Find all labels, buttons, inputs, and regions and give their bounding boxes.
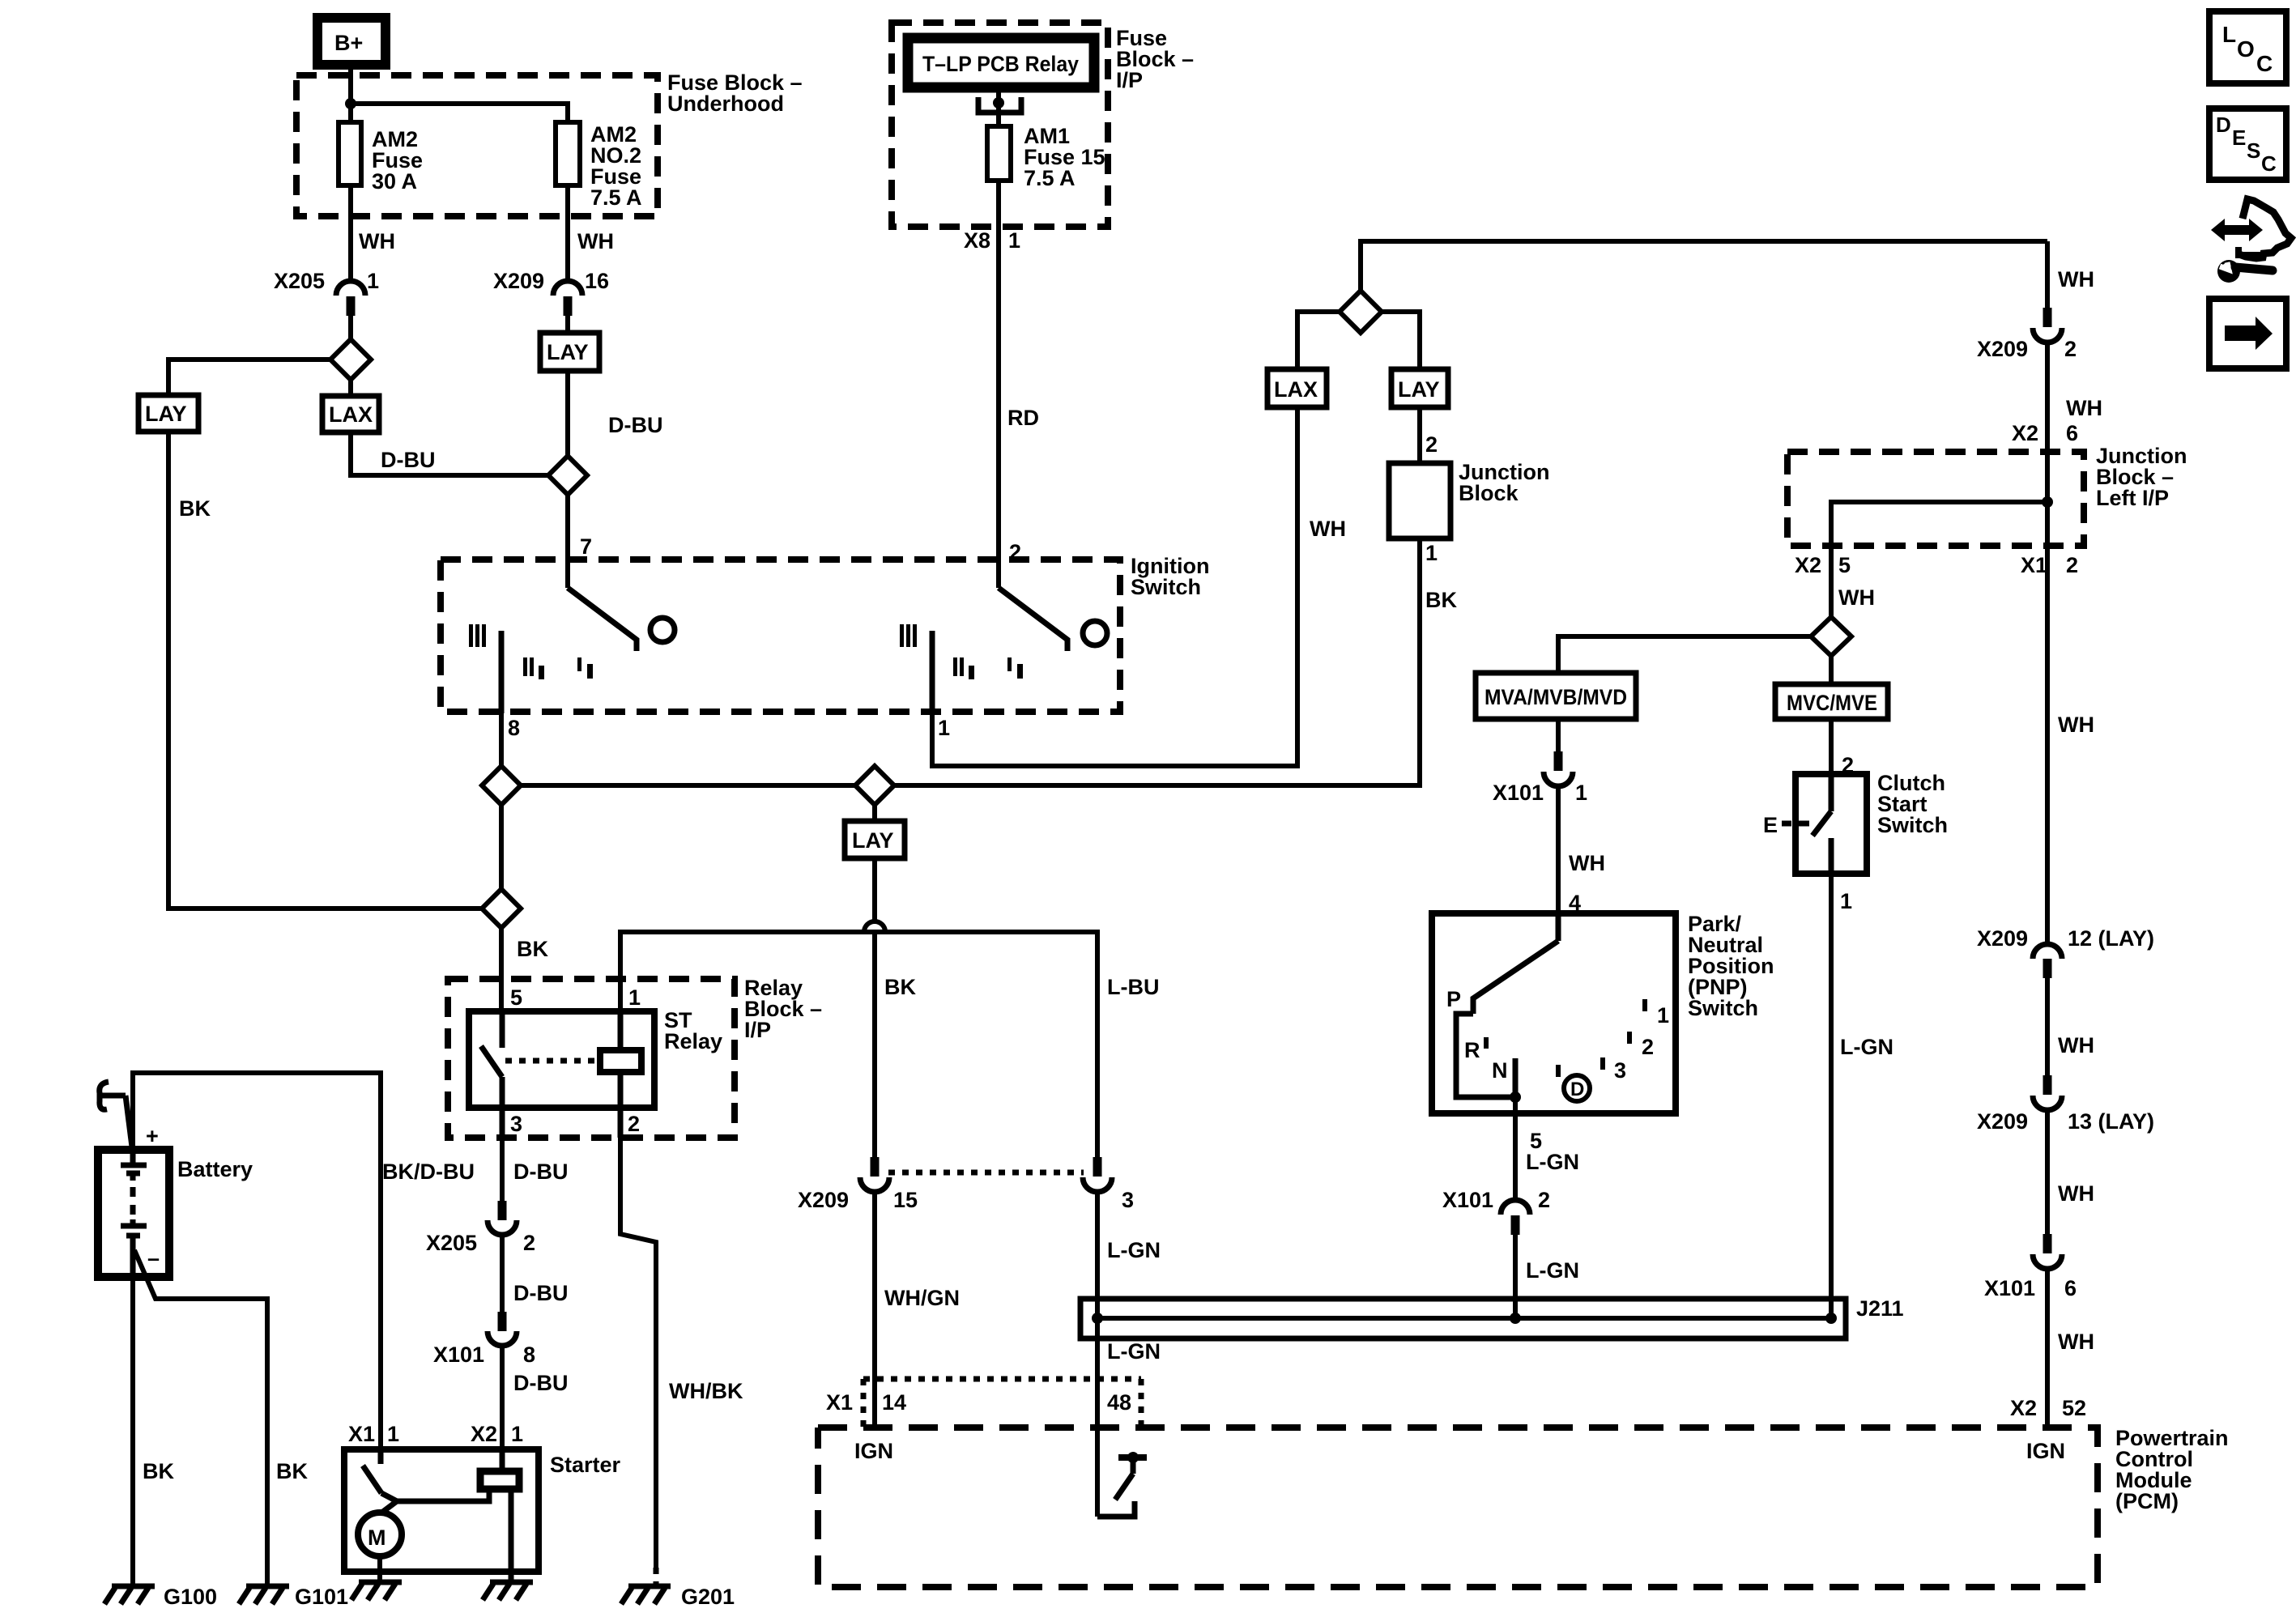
svg-text:12 (LAY): 12 (LAY)	[2068, 926, 2154, 951]
connector X209 pin 13	[2033, 1075, 2062, 1110]
wire MVC/MVE to clutch start switch	[1829, 719, 1834, 774]
fuse AM2 30A	[339, 122, 361, 185]
svg-text:3: 3	[1122, 1188, 1134, 1212]
svg-text:X101: X101	[1984, 1276, 2035, 1300]
ground under starter motor	[351, 1582, 402, 1600]
wire splice S5 down to relay block	[499, 928, 504, 1011]
wire battery positive up and over to starter X1-1	[133, 1073, 381, 1449]
starter box	[344, 1449, 539, 1572]
ground G201	[621, 1586, 671, 1604]
wire X209-2 drop	[2045, 241, 2050, 310]
svg-text:WH: WH	[359, 229, 395, 253]
svg-text:Underhood: Underhood	[667, 91, 784, 116]
svg-text:1: 1	[1840, 889, 1852, 913]
net label box MVA/MVB/MVD	[1476, 673, 1636, 719]
connector X101 pin 1	[1544, 751, 1573, 786]
svg-text:WH: WH	[1569, 851, 1605, 875]
net label box MVC/MVE	[1775, 684, 1888, 719]
svg-text:WH: WH	[2058, 267, 2094, 291]
svg-text:N: N	[1492, 1058, 1508, 1083]
wire junction strap to X2-5	[1831, 502, 2047, 546]
splice diamond S7	[1811, 617, 1851, 656]
svg-text:BK: BK	[1425, 588, 1457, 612]
svg-text:Block: Block	[1459, 481, 1519, 505]
ignition switch section B contact ring	[1083, 621, 1107, 645]
svg-text:1: 1	[628, 985, 641, 1010]
ignition switch section A contact III line	[499, 631, 505, 713]
svg-text:8: 8	[508, 716, 520, 740]
svg-text:LAY: LAY	[547, 340, 589, 364]
splice diamond S6 (on bus to mid LAY)	[855, 766, 894, 805]
label Junction Block	[1459, 460, 1550, 505]
svg-text:8: 8	[523, 1343, 535, 1367]
svg-text:D-BU: D-BU	[513, 1281, 569, 1305]
wire LAX down then right to D-BU splice	[351, 432, 547, 475]
label X209 12 (LAY)	[1977, 926, 2154, 951]
label ST Relay	[664, 1008, 722, 1053]
svg-text:C: C	[2261, 151, 2277, 176]
label X2 1 (starter)	[471, 1422, 523, 1446]
wire branch to LAX and LAY	[1297, 312, 1420, 369]
svg-text:Switch: Switch	[1131, 575, 1201, 599]
svg-text:X209: X209	[1977, 1109, 2028, 1134]
splice bar J211	[1080, 1299, 1846, 1338]
PNP switch blade from pin 4	[1473, 913, 1558, 1014]
label X1 14	[826, 1390, 906, 1415]
svg-text:C: C	[2256, 51, 2273, 76]
svg-text:X209: X209	[798, 1188, 849, 1212]
junction block left I/P dashed enclosure	[1787, 452, 2084, 546]
wire splice S3 up and across to X209-2 drop	[1361, 241, 2047, 291]
svg-text:X2: X2	[1795, 553, 1821, 577]
svg-text:D-BU: D-BU	[381, 448, 436, 472]
label R with tick	[1464, 1037, 1489, 1062]
svg-text:I/P: I/P	[744, 1018, 771, 1042]
svg-text:1: 1	[938, 716, 950, 740]
svg-text:X101: X101	[1442, 1188, 1493, 1212]
wire X205-2 to X101-8	[500, 1235, 505, 1312]
svg-text:1: 1	[367, 269, 379, 293]
svg-text:L-GN: L-GN	[1107, 1339, 1161, 1364]
connector X205 pin 1	[336, 281, 365, 316]
svg-text:X205: X205	[426, 1231, 477, 1255]
splice diamond S1	[330, 339, 371, 380]
svg-text:7.5 A: 7.5 A	[1024, 166, 1076, 190]
label X209 13 (LAY)	[1977, 1109, 2154, 1134]
PNP position 2 mark	[1627, 1032, 1654, 1059]
label X8 1	[964, 228, 1020, 253]
wire clutch switch to J211	[1829, 874, 1834, 1318]
svg-text:X1: X1	[826, 1390, 853, 1415]
svg-text:30 A: 30 A	[372, 169, 417, 194]
svg-text:WH: WH	[2058, 713, 2094, 737]
starter motor M	[358, 1513, 402, 1556]
label X1 2	[2021, 553, 2078, 577]
svg-text:X101: X101	[1493, 781, 1544, 805]
node dot J211 mid	[1510, 1313, 1521, 1324]
svg-text:G101: G101	[295, 1585, 348, 1609]
svg-text:RD: RD	[1007, 406, 1039, 430]
wire splice to left LAY branch	[168, 360, 330, 395]
starter solenoid coil	[480, 1449, 519, 1581]
label AM2 Fuse 30 A	[372, 127, 423, 194]
svg-text:X205: X205	[274, 269, 325, 293]
ST relay coil	[600, 1011, 641, 1138]
svg-text:D-BU: D-BU	[513, 1160, 569, 1184]
svg-text:MVC/MVE: MVC/MVE	[1787, 691, 1877, 715]
PNP switch N contact	[1513, 1058, 1519, 1097]
wire splice S6 down to LAY mid-low box	[872, 805, 877, 821]
net label box LAX (mid)	[1267, 369, 1327, 407]
label X1 1 (starter)	[348, 1422, 399, 1446]
svg-text:5: 5	[510, 985, 522, 1010]
svg-text:L-GN: L-GN	[1526, 1258, 1579, 1283]
wire far-left BK down and right to diamond	[168, 432, 482, 908]
wire battery negative branch to ground G101	[134, 1250, 267, 1585]
wire splice S7 to MVA/MVB/MVD	[1558, 636, 1811, 673]
svg-text:I/P: I/P	[1116, 68, 1143, 92]
svg-text:–: –	[147, 1246, 160, 1270]
connector X209 pin 15	[860, 1157, 889, 1192]
PCM internal switch to ground	[1097, 1452, 1147, 1517]
ground G100	[104, 1586, 155, 1604]
svg-text:J211: J211	[1856, 1296, 1904, 1321]
PCM dashed enclosure	[818, 1428, 2098, 1587]
svg-text:13 (LAY): 13 (LAY)	[2068, 1109, 2154, 1134]
svg-text:D: D	[2216, 113, 2231, 137]
ignition switch section A position I marks	[577, 657, 593, 679]
splice diamond S4 (below ignition pin 8)	[482, 766, 521, 805]
svg-text:LAY: LAY	[145, 402, 187, 426]
svg-text:X209: X209	[493, 269, 544, 293]
svg-text:2: 2	[2066, 553, 2078, 577]
connector X209 pin 3	[1083, 1157, 1112, 1192]
svg-text:X1: X1	[2021, 553, 2047, 577]
svg-text:LAX: LAX	[329, 402, 373, 427]
label X101 1	[1493, 781, 1587, 805]
clutch start switch box	[1795, 774, 1867, 874]
svg-text:3: 3	[510, 1112, 522, 1136]
connector X101 pin 8	[488, 1312, 517, 1346]
svg-text:2: 2	[1538, 1188, 1550, 1212]
wire X2-5 to splice diamond S7	[1829, 546, 1834, 617]
starter contact stub from X1-1	[378, 1449, 384, 1464]
icon wrench	[2217, 260, 2273, 283]
node dot at N contact	[1510, 1091, 1521, 1103]
wire LAY right-branch down to D-BU splice	[565, 371, 570, 456]
svg-text:X8: X8	[964, 228, 990, 253]
net label box LAY (mid low)	[845, 821, 905, 858]
junction block (small)	[1389, 463, 1450, 538]
wire LAY mid down to junction block	[1417, 407, 1422, 463]
wire X209-3 down through J211 to PCM 48	[1095, 1190, 1100, 1517]
label AM1 Fuse 15 7.5 A	[1024, 124, 1105, 190]
svg-text:WH: WH	[2058, 1330, 2094, 1354]
svg-text:BK: BK	[276, 1459, 308, 1483]
svg-text:IGN: IGN	[854, 1439, 893, 1463]
wire MVA box to connector X101-1	[1556, 719, 1561, 754]
svg-text:T–LP PCB Relay: T–LP PCB Relay	[922, 52, 1079, 76]
relay T-LP PCB Relay	[908, 38, 1094, 87]
wire splice down to LAX box	[348, 380, 353, 396]
svg-text:5: 5	[1838, 553, 1851, 577]
wire X101-6 to PCM X2-52	[2045, 1267, 2050, 1428]
ignition switch section B position I marks	[1007, 657, 1023, 679]
svg-text:6: 6	[2066, 421, 2078, 445]
svg-text:2: 2	[1009, 540, 1021, 564]
starter switch blade	[363, 1466, 381, 1493]
ignition switch section B position II marks	[953, 657, 974, 679]
icon service hood with arrow	[2211, 199, 2291, 258]
svg-text:1: 1	[511, 1422, 523, 1446]
svg-text:L: L	[2222, 22, 2236, 47]
svg-text:O: O	[2237, 36, 2255, 62]
svg-text:L-BU: L-BU	[1107, 975, 1159, 999]
label X209 2	[1977, 337, 2077, 361]
label X101 6	[1984, 1276, 2077, 1300]
svg-text:X2: X2	[471, 1422, 497, 1446]
connector X209 pin 12	[2033, 944, 2062, 978]
label Fuse Block - I/P	[1116, 26, 1194, 92]
starter motor link wire	[381, 1489, 489, 1501]
svg-text:D: D	[1570, 1079, 1584, 1100]
svg-text:1: 1	[1575, 781, 1587, 805]
svg-text:D-BU: D-BU	[513, 1371, 569, 1395]
svg-text:BK: BK	[143, 1459, 174, 1483]
wire ST relay pin1 riser and L-BU drop	[620, 932, 1097, 1160]
wire feed to AM2 NO.2 fuse	[351, 104, 568, 122]
svg-text:L-GN: L-GN	[1107, 1238, 1161, 1262]
svg-text:1: 1	[1425, 541, 1438, 565]
wire AM2 fuse to connector X205	[348, 185, 353, 283]
node dot J211 right	[1825, 1313, 1837, 1324]
node B+ battery feed terminal	[317, 18, 386, 65]
svg-text:Switch: Switch	[1688, 996, 1758, 1020]
splice diamond S5 (BK to relay)	[482, 889, 521, 928]
battery positive cable hook terminal	[100, 1082, 134, 1166]
svg-text:X209: X209	[1977, 337, 2028, 361]
label Powertrain Control Module (PCM)	[2115, 1426, 2229, 1513]
wire junction block pin1 down and left along bus	[521, 538, 1420, 785]
node dot J211 left	[1092, 1313, 1103, 1324]
svg-text:BK: BK	[517, 937, 548, 961]
label X205 1	[274, 269, 379, 293]
wire below hop to connector X209-15	[872, 932, 877, 1160]
svg-text:7.5 A: 7.5 A	[590, 185, 642, 210]
wire X209-13 to X101-6	[2045, 1108, 2050, 1236]
splice diamond S7b to MVC/MVE	[1829, 656, 1834, 684]
svg-text:Left I/P: Left I/P	[2096, 486, 2169, 510]
label Park/Neutral Position (PNP) Switch	[1688, 912, 1774, 1020]
svg-text:R: R	[1464, 1038, 1480, 1062]
ST relay actuator dashed link	[505, 1058, 600, 1064]
node junction dot inside block	[2042, 496, 2053, 508]
fuse block I/P dashed enclosure	[892, 23, 1108, 227]
wire relay to AM1 fuse	[996, 87, 1001, 126]
wire ignition pin 8 to splice S4	[499, 713, 504, 766]
PNP position 1 mark	[1642, 999, 1669, 1028]
svg-text:3: 3	[1614, 1058, 1626, 1083]
svg-text:Switch: Switch	[1877, 813, 1948, 837]
label X209 16	[493, 269, 609, 293]
icon LOC	[2209, 11, 2286, 83]
label X101 8	[433, 1343, 535, 1367]
ignition switch section B position III marks	[900, 624, 917, 647]
svg-text:LAX: LAX	[1274, 377, 1318, 402]
fuse block underhood dashed enclosure	[296, 75, 658, 216]
net label box LAX	[322, 396, 379, 432]
connector X209 pin 2	[2033, 308, 2062, 343]
label X2 6	[2012, 421, 2078, 445]
svg-text:52: 52	[2062, 1396, 2086, 1420]
dotted connector link X209	[888, 1170, 1084, 1176]
wire AM2 NO.2 fuse to connector X209	[565, 185, 570, 283]
svg-text:X2: X2	[2012, 421, 2038, 445]
svg-text:1: 1	[1657, 1003, 1669, 1028]
wire PNP pin 5 down	[1513, 1097, 1518, 1200]
svg-text:LAY: LAY	[1398, 377, 1440, 402]
ground G101	[239, 1586, 289, 1604]
svg-text:X101: X101	[433, 1343, 484, 1367]
connector X205 pin 2	[488, 1201, 517, 1235]
wire X209-15 to PCM X1-14	[872, 1190, 877, 1428]
wire link to motor	[381, 1501, 397, 1513]
svg-text:L-GN: L-GN	[1840, 1035, 1893, 1059]
svg-text:BK: BK	[179, 496, 211, 521]
label Fuse Block - Underhood	[667, 70, 803, 116]
label Ignition Switch	[1131, 554, 1209, 599]
splice diamond S3 above LAX/LAY	[1340, 291, 1382, 333]
svg-text:Battery: Battery	[177, 1157, 253, 1181]
relay block I/P dashed enclosure	[448, 979, 735, 1138]
wire X209-12 to X209-13	[2045, 978, 2050, 1078]
wire X101-8 down to starter solenoid X2-1	[500, 1346, 505, 1449]
svg-text:IGN: IGN	[2026, 1439, 2065, 1463]
svg-text:7: 7	[580, 534, 592, 559]
ignition switch section B blade (pin 2)	[999, 588, 1067, 651]
svg-text:E: E	[2232, 126, 2246, 150]
clutch switch contacts	[1813, 774, 1831, 874]
icon DESC	[2209, 109, 2286, 180]
svg-text:X2: X2	[2010, 1396, 2037, 1420]
svg-text:16: 16	[585, 269, 609, 293]
label X205 2	[426, 1231, 535, 1255]
wire B+ down to AM2 fuse	[348, 65, 353, 122]
svg-text:15: 15	[893, 1188, 918, 1212]
svg-text:BK: BK	[884, 975, 916, 999]
wire battery negative to ground G100	[130, 1277, 135, 1585]
fuse AM2 NO.2 7.5A	[556, 122, 580, 185]
svg-text:WH/BK: WH/BK	[669, 1379, 743, 1403]
wire X101-2 to J211	[1513, 1235, 1518, 1318]
label AM2 NO.2 Fuse 7.5 A	[590, 122, 642, 210]
PNP position D mark	[1556, 1065, 1590, 1101]
svg-text:B+: B+	[334, 31, 363, 55]
svg-text:BK/D-BU: BK/D-BU	[382, 1160, 475, 1184]
ignition switch dashed enclosure	[441, 560, 1120, 712]
label X209 15	[798, 1188, 918, 1212]
ignition switch section B contact III line	[930, 631, 935, 713]
connector X209 pin 16	[553, 281, 582, 316]
wire ST relay pin 2 to WH/BK drop	[620, 1138, 656, 1568]
PCB relay socket bracket	[978, 97, 1021, 113]
svg-text:D-BU: D-BU	[608, 413, 663, 437]
label X2 5	[1795, 553, 1851, 577]
label E with dash	[1763, 813, 1809, 837]
svg-text:2: 2	[628, 1112, 640, 1136]
relay ST Relay box	[469, 1011, 654, 1108]
ST relay switch contact	[481, 1011, 502, 1138]
ignition switch section A position II marks	[523, 657, 544, 679]
PNP switch box	[1432, 913, 1676, 1113]
wire LAY mid-low down to hop	[872, 858, 877, 922]
wire crossover hop	[864, 921, 885, 932]
svg-text:S: S	[2247, 138, 2260, 163]
svg-text:E: E	[1763, 813, 1778, 837]
svg-text:G100: G100	[164, 1585, 217, 1609]
label Clutch Start Switch	[1877, 771, 1948, 837]
net label box LAY (right branch)	[540, 333, 599, 371]
wire right WH drop X209-12	[2045, 729, 2050, 947]
label Junction Block - Left I/P	[2096, 444, 2187, 510]
battery	[98, 1150, 169, 1277]
svg-text:WH: WH	[2066, 396, 2102, 420]
svg-text:G201: G201	[681, 1585, 735, 1609]
svg-text:6: 6	[2064, 1276, 2077, 1300]
svg-text:2: 2	[1642, 1035, 1654, 1059]
svg-text:P: P	[1446, 987, 1461, 1011]
wire ST relay pin 3 down to connector X205-2	[500, 1138, 505, 1201]
PNP switch P-N strap	[1456, 1014, 1517, 1097]
label X2 52	[2010, 1396, 2086, 1420]
wire ignition B pin1 to LAX riser	[932, 407, 1297, 766]
label Relay Block - I/P	[744, 976, 822, 1042]
svg-text:WH: WH	[2058, 1033, 2094, 1057]
label X101 2	[1442, 1188, 1550, 1212]
net label box LAY (mid)	[1391, 369, 1448, 407]
ignition switch section A position III marks	[469, 624, 486, 647]
svg-text:Starter: Starter	[550, 1453, 621, 1477]
svg-text:WH: WH	[1838, 585, 1875, 610]
wire D-BU splice to ignition switch pin 7	[565, 495, 570, 588]
wire X209-2 to junction block left I/P	[2045, 341, 2050, 502]
svg-text:2: 2	[523, 1231, 535, 1255]
svg-text:WH: WH	[577, 229, 614, 253]
svg-text:WH: WH	[1310, 517, 1346, 541]
svg-text:2: 2	[1425, 432, 1438, 457]
svg-text:48: 48	[1107, 1390, 1131, 1415]
ground under starter solenoid	[483, 1582, 533, 1600]
svg-text:(PCM): (PCM)	[2115, 1489, 2179, 1513]
svg-text:+: +	[146, 1124, 159, 1148]
fuse AM1 15 7.5A	[987, 126, 1011, 181]
wire motor to ground	[377, 1556, 382, 1581]
svg-text:M: M	[368, 1526, 386, 1550]
svg-text:L-GN: L-GN	[1526, 1150, 1579, 1174]
wire connector X205 to splice diamond	[348, 316, 353, 340]
connector X101 pin 6	[2033, 1234, 2062, 1269]
wire connector X209-16 to LAY box	[565, 316, 570, 333]
svg-text:X1: X1	[348, 1422, 375, 1446]
connector X101 pin 2	[1501, 1200, 1530, 1235]
svg-text:WH/GN: WH/GN	[884, 1286, 960, 1310]
wire splice S4 down to splice S5	[499, 805, 504, 889]
svg-text:WH: WH	[2058, 1181, 2094, 1206]
wire AM1 fuse down to ignition switch pin 2	[996, 181, 1001, 588]
wire X101-1 to PNP switch pin 4	[1556, 785, 1561, 913]
svg-text:MVA/MVB/MVD: MVA/MVB/MVD	[1485, 685, 1627, 709]
svg-text:1: 1	[1008, 228, 1020, 253]
